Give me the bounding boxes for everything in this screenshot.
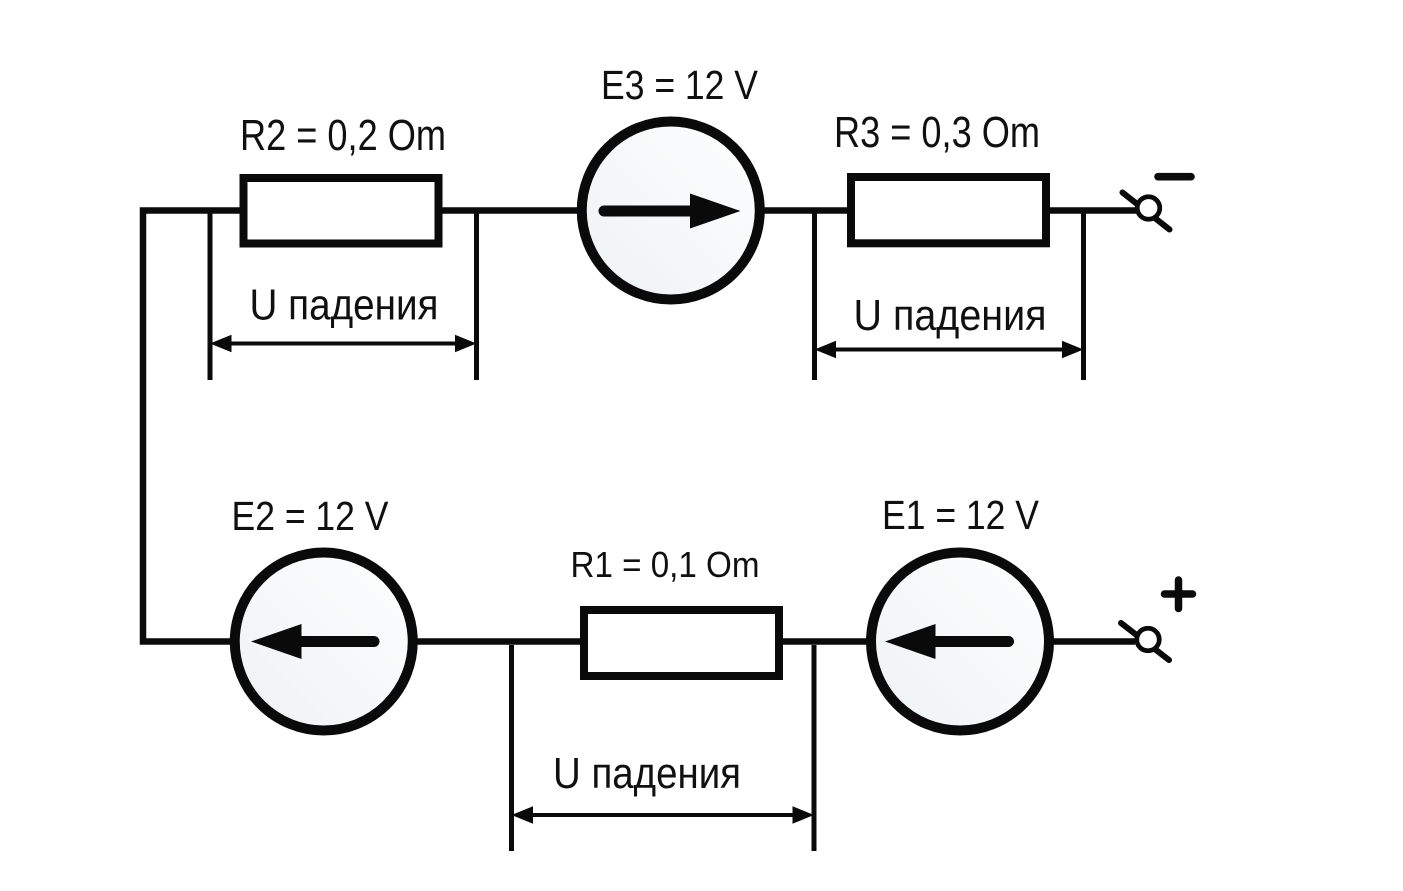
source E3: [582, 122, 760, 300]
svg-text:U падения: U падения: [854, 291, 1047, 340]
dimension arrow U падения R3: [815, 341, 1084, 358]
svg-text:U падения: U падения: [553, 749, 741, 798]
resistor R3: [851, 177, 1046, 243]
node tick left of R3: [812, 213, 817, 380]
wire main loop: [143, 211, 1136, 642]
source E1: [871, 553, 1049, 731]
node tick right of R3: [1081, 213, 1086, 380]
resistor R1: [584, 610, 779, 676]
terminal minus diagonal: [1123, 193, 1170, 230]
svg-text:R1 = 0,1 Om: R1 = 0,1 Om: [571, 544, 760, 585]
terminal minus circle: [1137, 197, 1160, 220]
svg-text:E3 = 12 V: E3 = 12 V: [601, 62, 758, 108]
source E2: [235, 553, 413, 731]
node tick left of R2: [208, 213, 213, 380]
minus sign: [1158, 173, 1191, 181]
svg-text:E1 = 12 V: E1 = 12 V: [882, 492, 1039, 538]
arrow inside E2: [251, 624, 374, 659]
arrow inside E1: [885, 624, 1009, 659]
svg-text:R3 = 0,3 Om: R3 = 0,3 Om: [834, 109, 1040, 157]
node tick left of R1: [509, 645, 514, 851]
svg-text:E2 = 12 V: E2 = 12 V: [232, 493, 389, 539]
plus sign: [1165, 580, 1193, 609]
svg-text:U падения: U падения: [250, 281, 439, 330]
arrow inside E3: [604, 194, 741, 229]
dimension arrow U падения R2: [210, 335, 477, 352]
terminal plus diagonal: [1121, 623, 1169, 660]
dimension arrow U падения R1: [512, 806, 815, 823]
svg-text:R2 = 0,2 Om: R2 = 0,2 Om: [240, 112, 446, 160]
node tick right of R2: [474, 213, 479, 380]
resistor R2: [244, 178, 439, 244]
terminal plus circle: [1137, 628, 1160, 651]
node tick right of R1: [812, 645, 817, 851]
